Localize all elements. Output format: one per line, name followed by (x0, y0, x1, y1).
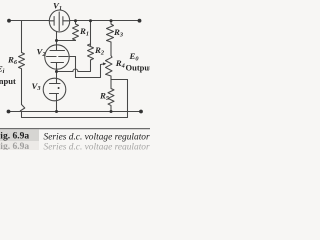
svg-text:Input: Input (0, 76, 16, 86)
node R3 top junction (110, 19, 113, 22)
wire R6 lead kink arrow at bottom rail (20, 105, 25, 112)
tube V3 cathode lead (56, 94, 58, 112)
node output+ terminal (138, 19, 142, 23)
wire cathode node to R2 (with hop) (57, 71, 73, 73)
wire top rail left (input+ to V1) (9, 20, 49, 22)
node output- terminal (139, 110, 143, 114)
tube V1 envelope (49, 10, 69, 32)
tube V2 plate lead (56, 41, 58, 51)
resistor R6 (19, 53, 25, 69)
wire R3 to R4 (110, 42, 112, 56)
tube V3 cathode bar (50, 93, 59, 95)
wire R4-R5 node to right branch (111, 79, 128, 81)
node V1 grid / V2 plate / R1 junction (55, 39, 58, 42)
node R2 top junction (89, 19, 92, 22)
wire V1 grid lead (below envelope) (56, 32, 58, 41)
tube V1 left lead (49, 20, 54, 22)
svg-text:Series d.c. voltage regulator: Series d.c. voltage regulator (44, 132, 150, 142)
wire R1 bottom to grid node (57, 40, 76, 42)
wire grid to wiper (76, 65, 101, 78)
tube V1 left electrode bar (53, 17, 55, 26)
caption figure number highlight box (0, 130, 39, 141)
wire bottom rail (9, 111, 142, 113)
resistor R2 (88, 44, 94, 60)
svg-text:Series d.c. voltage regulator: Series d.c. voltage regulator (44, 143, 150, 150)
wire grid vertical down (75, 57, 77, 78)
node input+ terminal (7, 19, 11, 23)
svg-text:Fig. 6.9a: Fig. 6.9a (0, 142, 29, 150)
tube V3 plate bar (50, 83, 61, 85)
wire R2 top lead (90, 21, 92, 46)
wire hop over grid line (73, 69, 78, 72)
resistor R5 (108, 80, 114, 112)
wire wiper arrow line (101, 63, 104, 66)
tube V1 right electrode bar (62, 17, 64, 25)
wire hop to R2 corner (78, 60, 91, 72)
tube V2 cathode lead (56, 63, 58, 72)
node R5 bottom on bottom rail (110, 110, 113, 113)
gas dot inside V3 (58, 87, 60, 89)
tube V2 grid (dashed) (47, 56, 69, 58)
node input- terminal (7, 110, 11, 114)
node V3 cathode on bottom rail (55, 110, 58, 113)
svg-text:Output: Output (126, 63, 151, 73)
resistor R4 (potentiometer) (106, 56, 113, 80)
tube V3 envelope (43, 78, 66, 101)
wire R6 bottom lead (21, 69, 23, 105)
wire lower return loop (22, 112, 128, 118)
wire V2 grid exit (69, 56, 75, 58)
wire top rail right (V1 to output+) (70, 20, 140, 22)
wire R6 branch vertical (21, 21, 23, 53)
svg-text:Fig. 6.9a: Fig. 6.9a (0, 131, 29, 141)
tube V2 cathode bar (51, 62, 64, 64)
wire right branch vertical (127, 80, 129, 112)
tube V2 envelope (45, 45, 69, 69)
node V2 cathode / V3 plate junction (55, 70, 58, 73)
wiper arrowhead of R4 (103, 62, 106, 65)
resistor R1 (73, 21, 79, 41)
tube V2 plate bar (50, 50, 65, 52)
caption rule (0, 128, 150, 129)
tube V1 grid line (58, 12, 60, 31)
tube V1 right lead (63, 20, 70, 22)
tube V3 plate lead (56, 72, 58, 84)
node R1 top junction (74, 19, 77, 22)
caption figure number ghost highlight box (second row) (0, 141, 39, 150)
resistor R3 (107, 21, 114, 43)
